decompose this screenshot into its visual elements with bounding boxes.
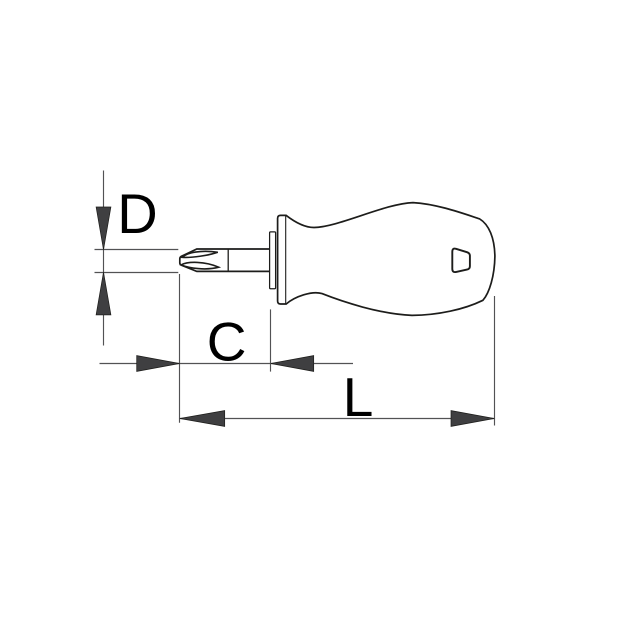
svg-text:L: L <box>343 366 374 428</box>
svg-text:D: D <box>117 182 157 245</box>
svg-text:C: C <box>207 310 247 372</box>
